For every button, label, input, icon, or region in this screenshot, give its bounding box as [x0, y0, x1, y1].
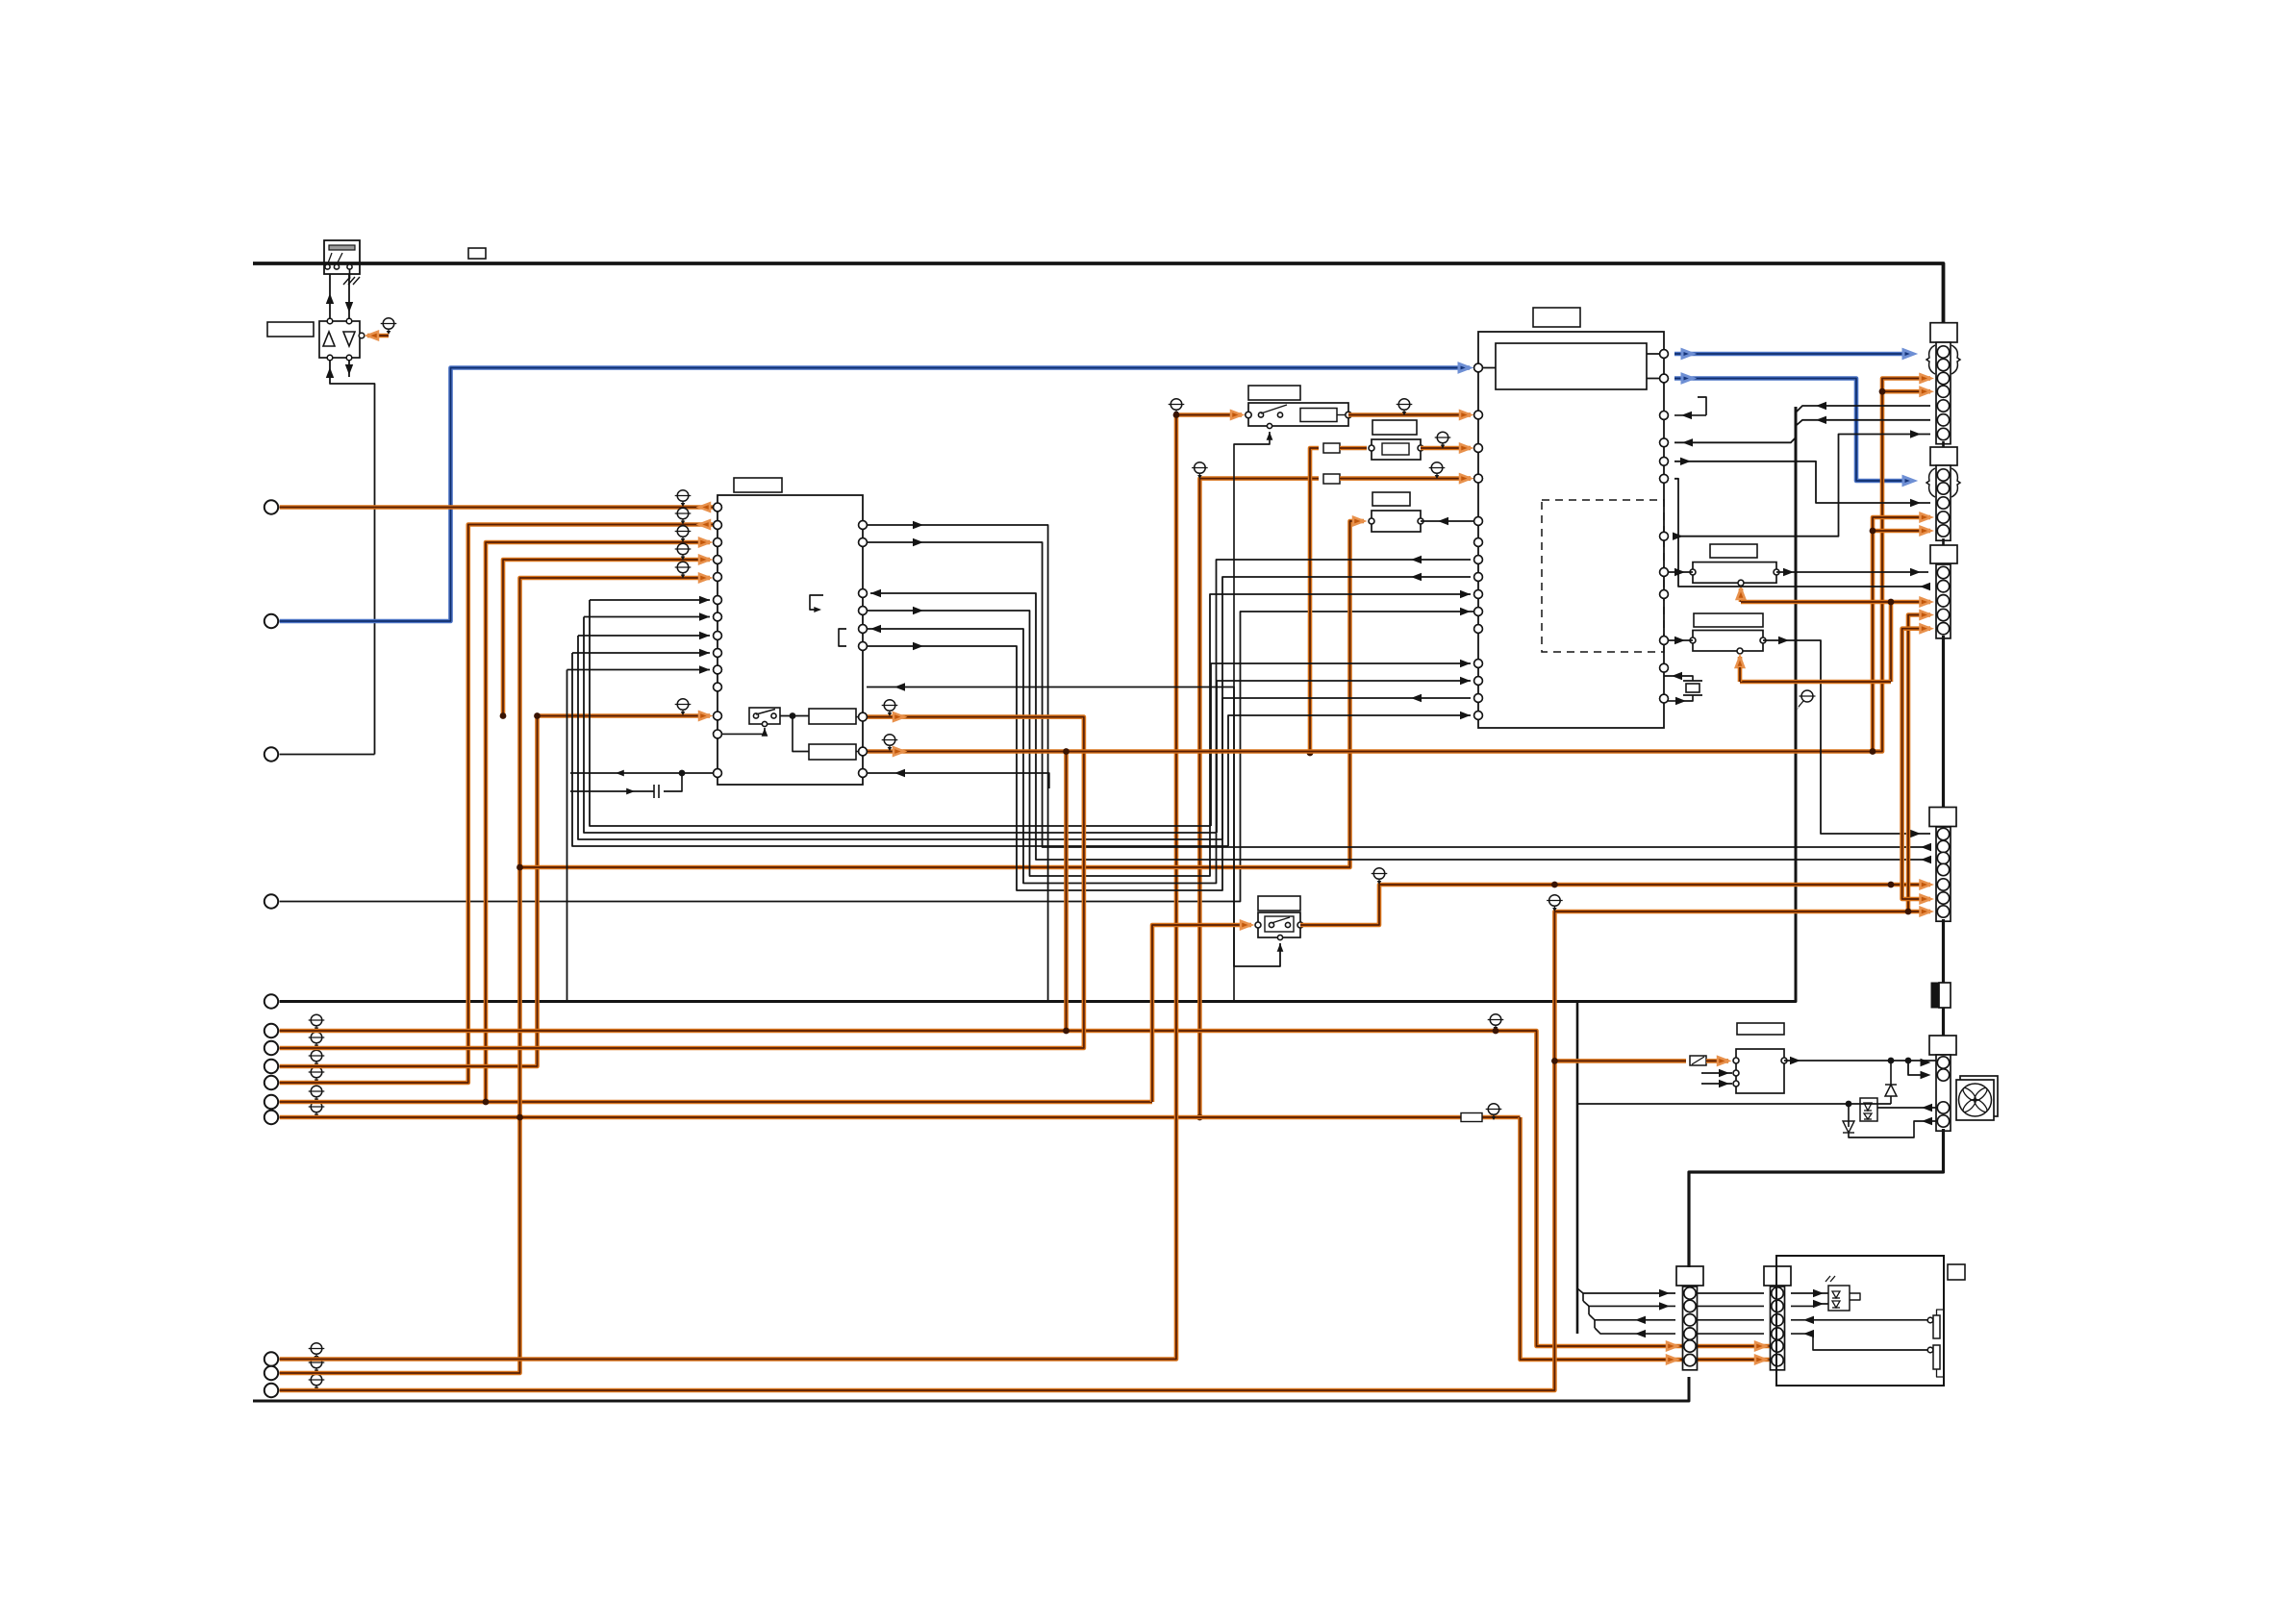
wire ground bus horizontal	[280, 407, 1796, 1002]
wire orange LF1 to U2	[1421, 446, 1471, 451]
connector CB2 label	[1764, 1266, 1791, 1286]
IC U1 reset glyph	[810, 595, 823, 610]
connector CB2	[1771, 1287, 1785, 1370]
fan FAN1	[1960, 1076, 1998, 1116]
wire orange pin5 riser x540	[280, 578, 710, 1373]
wire CN4 to inline connector	[1942, 919, 1945, 983]
resistor block RB2	[1693, 631, 1763, 652]
thermistor inline on TR input	[1690, 1056, 1706, 1065]
wire orange net N5 to U1 pin2	[280, 525, 713, 1084]
wire conn1 c6 drop	[1797, 420, 1930, 425]
connector CN1 label	[1930, 323, 1957, 342]
zener bridge ZB	[1860, 1098, 1877, 1121]
wire blue B1 T2 to IC2	[280, 368, 1470, 622]
wire harness h1	[863, 525, 1048, 1002]
switch SW2	[1248, 403, 1348, 426]
switch SW-A inside U1	[749, 708, 780, 724]
wire U2 to RB2	[1664, 639, 1693, 641]
wire orange riser to fuse line	[1199, 479, 1319, 1117]
wire orange net N8 riser	[1521, 1117, 1779, 1360]
wire orange fuse F2 to U2	[1340, 476, 1471, 481]
wire photo out	[1850, 1293, 1860, 1300]
diode D2	[1890, 1061, 1892, 1085]
test point TP-bus1868	[1797, 690, 1816, 711]
connector CN3 label	[1930, 545, 1957, 563]
connector CN4	[1936, 827, 1951, 921]
terminal orange bottom y1413.5	[264, 1352, 278, 1365]
wire orange RC3 to connector C4 pin7	[280, 912, 1930, 1390]
IC U1 label	[734, 478, 782, 492]
fan connector CN6	[1936, 1055, 1951, 1131]
wire fan c2 branch	[1908, 1061, 1928, 1075]
wire orange RB1 bottom	[1739, 588, 1744, 602]
test point TP-781	[882, 735, 898, 751]
test point TP1	[675, 490, 692, 507]
wire conn2 c3 link	[1674, 462, 1930, 503]
wire relay SW3 control from U2	[1234, 853, 1280, 966]
wire left bundle l4	[572, 652, 710, 654]
test point TP3	[675, 526, 692, 542]
connector CN2 label	[1930, 447, 1957, 465]
wire conn1 c7 loop	[1674, 435, 1930, 537]
wire left bundle l3	[578, 635, 710, 637]
test point TP2	[675, 508, 692, 524]
pin circles overlay U2	[1474, 363, 1483, 372]
terminal T5 ground	[264, 994, 278, 1008]
wire left bundle l5	[567, 669, 711, 671]
wire orange U1 pin781 long power	[863, 379, 1930, 752]
module M3 label	[1372, 492, 1410, 506]
wire D1 to ground rail	[330, 361, 375, 755]
wire harness h4	[863, 594, 1471, 876]
test point TP-U2b	[1429, 462, 1446, 479]
wire orange F1 line	[1310, 448, 1319, 753]
brace CN2 pair	[1951, 468, 1960, 497]
connector CN2	[1936, 465, 1951, 540]
wire S1 to D1	[329, 274, 331, 318]
inline connector CN5	[1931, 983, 1938, 1008]
inline box on N8	[1461, 1113, 1482, 1122]
wire blue B3 IC2 out2	[1674, 379, 1911, 482]
wire orange pin781 branch to row1	[1064, 752, 1069, 1032]
IC U1	[718, 495, 863, 785]
wire RB2 out riser to connector C4 pin1	[1763, 640, 1930, 834]
power switch S1	[324, 240, 360, 274]
connector CN3	[1936, 564, 1951, 638]
fan connector CN6 label	[1929, 1036, 1956, 1055]
wire SW-A control	[721, 728, 765, 734]
wire blue B2 IC2 out1	[1674, 352, 1911, 357]
diode module D1	[319, 321, 360, 358]
relay SW3 label	[1258, 896, 1300, 911]
test point TP5	[675, 562, 692, 578]
terminal orange y1109	[264, 1060, 278, 1073]
fuse F2	[1323, 474, 1340, 484]
wire orange T1 to U1 pin1	[280, 505, 713, 510]
wire U1 pin804 join	[867, 773, 1049, 788]
fuse F1	[1323, 443, 1340, 453]
terminal orange y1162	[264, 1111, 278, 1124]
wire orange net N6 to U1 pin3	[280, 542, 710, 1102]
IC U2	[1478, 332, 1664, 728]
connector CB1	[1683, 1287, 1698, 1370]
test point TP-RC3	[1547, 895, 1563, 912]
test point TP-N2	[1169, 399, 1185, 415]
brace CN1 pair	[1951, 345, 1960, 374]
test point TP-LF1	[1435, 432, 1451, 448]
wire T3	[280, 754, 375, 756]
wire CN3 to CN4 trunk	[1942, 636, 1945, 808]
resistor R-A	[809, 709, 856, 724]
wire orange tap conn1 c4	[1882, 389, 1930, 394]
switch SW2 label	[1248, 386, 1300, 400]
connector CN4 label	[1929, 808, 1956, 827]
transistor module TR label	[1737, 1023, 1784, 1035]
wire U2 557 tap	[1674, 536, 1675, 537]
IC U2 label	[1533, 308, 1580, 327]
wire harness h3	[870, 593, 1930, 860]
wire orange TR input end	[1706, 1059, 1728, 1063]
resistor block RB2 label	[1694, 613, 1763, 627]
test point TP4	[675, 543, 692, 560]
wire CB2 c4 to RS2	[1791, 1334, 1927, 1350]
wire M3 out to U2	[1421, 520, 1478, 522]
wire fan connector bottom to ground	[1689, 1129, 1944, 1267]
wire orange N1 main to bottom connectors	[280, 1031, 1778, 1346]
wire orange SW3 feed from row5	[1152, 925, 1251, 1102]
wire left bundle l2	[584, 616, 710, 618]
filter LF1 label	[1372, 420, 1417, 435]
wire TR out to fan c1	[1784, 1060, 1936, 1062]
wire bottom harness from ground drop	[1577, 1288, 1675, 1293]
terminal T1	[264, 500, 278, 513]
wire U1 pin714 out	[867, 687, 1234, 854]
photo interrupter PH1	[1828, 1286, 1850, 1311]
wire RB1 out to connector C3 pin1	[1776, 571, 1928, 573]
wire conn1 c5 drop	[1797, 406, 1930, 412]
terminal T2 blue	[264, 614, 278, 628]
ground chassis	[349, 269, 351, 279]
wire left rail descent	[590, 600, 1211, 826]
filter LF1	[1372, 439, 1421, 460]
wire CB2 c3 to RS1	[1791, 1319, 1927, 1321]
zener D3	[1848, 1104, 1850, 1127]
wire orange SW3 out to connector C4 pin5	[1300, 885, 1930, 925]
wire power bus top	[253, 263, 1944, 323]
wire orange net P4 to U1 pin4	[503, 560, 710, 716]
wire SW-A to resistors	[780, 716, 809, 752]
wire CN2 link	[1942, 538, 1945, 545]
sensor resistor RS2	[1933, 1345, 1940, 1369]
terminal T4	[264, 894, 278, 908]
module M3	[1372, 511, 1421, 532]
wire fan c3 link	[1877, 1107, 1936, 1109]
test point TP-SW3o	[1372, 868, 1388, 885]
terminal orange y1146	[264, 1095, 278, 1109]
wire orange U1 pin 745 feed	[538, 713, 711, 718]
test point TP-N8	[1486, 1104, 1502, 1120]
wire orange conn3 c4 drop	[1908, 615, 1930, 912]
wire CN1 link	[1942, 441, 1945, 447]
resistor block RB1 label	[1710, 544, 1757, 558]
wire TR in2	[1701, 1072, 1732, 1074]
wire orange RB2 riser	[1738, 667, 1743, 682]
wire orange RC1 to switch SW2	[280, 415, 1242, 1360]
connector CB1 label	[1676, 1266, 1703, 1286]
IC U2 subblock	[1496, 343, 1647, 389]
wire orange into D1	[367, 334, 389, 338]
wire orange TR input branch	[1554, 1059, 1686, 1063]
wire ground drop x1640	[1576, 1003, 1579, 1334]
test point TP-F2	[1192, 462, 1208, 479]
diode module D1 label	[267, 322, 314, 337]
IC U2 dashed block	[1542, 500, 1664, 652]
wire left bundle l1	[590, 599, 710, 601]
wire orange row6 to bottom connectors c6	[1667, 1356, 1677, 1363]
relay SW3	[1258, 912, 1300, 937]
test point TP-N1	[1488, 1014, 1504, 1031]
wire orange conn3 c5 to conn4 c6	[1902, 629, 1930, 899]
key glyph right of U2	[1674, 414, 1706, 416]
wire orange RB1 drop	[1889, 602, 1894, 682]
wire orange SW2 out	[1348, 412, 1471, 417]
wire conn3 c2 link	[1674, 479, 1930, 587]
label box top	[468, 248, 486, 259]
terminal orange bottom y1428	[264, 1366, 278, 1380]
wire rail to U2 risers	[1211, 663, 1471, 826]
terminal orange y1072	[264, 1024, 278, 1037]
wire U2 460 join bus riser	[1674, 437, 1796, 442]
pin circles overlay U1	[714, 503, 722, 512]
terminal orange bottom y1446	[264, 1384, 278, 1397]
test point TP-745	[675, 699, 692, 715]
resistor block RB1	[1693, 562, 1776, 584]
wire CB2 to photo	[1791, 1292, 1828, 1294]
wire orange tap conn2 pins	[1873, 517, 1930, 752]
wire SW2 control	[1234, 432, 1270, 1002]
connector CN1	[1936, 342, 1951, 444]
wire terminal T4 line	[280, 612, 1478, 902]
wire fan c4 link	[1849, 1121, 1936, 1137]
wire orange net N8 row4	[280, 1115, 1521, 1120]
wire orange RB2 bottom	[1738, 657, 1743, 667]
resistor R-B	[809, 744, 856, 760]
test points at left terminals	[309, 1014, 325, 1031]
sensor small box	[1948, 1264, 1965, 1280]
transistor module TR	[1736, 1049, 1784, 1093]
terminal T3	[264, 747, 278, 761]
wire U2 to RB1	[1664, 571, 1693, 573]
sensor resistor RS1	[1933, 1315, 1940, 1338]
crystal X1	[1664, 676, 1693, 681]
wire blue inside U2	[1478, 367, 1496, 369]
test point TP-SW2o	[1397, 399, 1413, 415]
wire between bottom connectors	[1698, 1292, 1764, 1294]
wire zener feed	[1577, 1103, 1891, 1105]
wire orange M3 feed	[520, 521, 1365, 867]
wire CN5 to fan connector	[1942, 1008, 1945, 1036]
test point TP-746	[882, 700, 898, 716]
wire harness h2	[863, 542, 1930, 847]
sensor unit box	[1776, 1256, 1944, 1386]
wire orange net N4 to U1 pin5	[280, 716, 538, 1067]
terminal orange y1090	[264, 1041, 278, 1055]
wire orange U1 pin746 to terminal row2	[280, 717, 1084, 1048]
wire orange net N6b continuation	[486, 1100, 1152, 1105]
wire harness h5	[863, 560, 1471, 884]
wire harness jumper bracket	[839, 629, 846, 646]
wire TR in3	[1701, 1083, 1732, 1085]
capacitor C-A below U1	[570, 772, 714, 774]
wire harness h6	[863, 577, 1471, 890]
terminal orange y1126	[264, 1076, 278, 1089]
wire bottom ground line	[253, 1377, 1689, 1401]
test point TP-D1	[381, 318, 397, 335]
